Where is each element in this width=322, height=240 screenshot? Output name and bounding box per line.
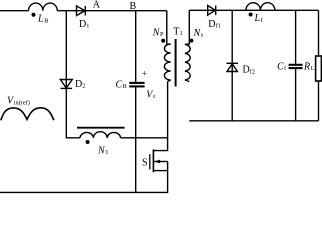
wire Cf bottom <box>295 69 297 121</box>
polarity dot N1 <box>86 140 90 144</box>
svg-text:in(ref): in(ref) <box>14 100 30 107</box>
svg-text:B: B <box>130 1 137 12</box>
label T1 <box>173 27 182 38</box>
svg-text:P: P <box>160 31 164 38</box>
label Vin(ref) <box>7 96 30 107</box>
label CB <box>116 79 127 90</box>
diode Df1 <box>208 6 216 16</box>
svg-text:S: S <box>142 158 148 169</box>
transformer T1 primary winding NP <box>164 11 170 82</box>
wire right edge to RL <box>318 10 320 56</box>
inductor N1 <box>80 132 121 138</box>
label Ns <box>193 28 204 39</box>
svg-text:D: D <box>208 19 215 30</box>
svg-text:D: D <box>79 19 86 30</box>
polarity dot Ns <box>189 39 193 43</box>
transformer core <box>175 39 177 87</box>
label Cf <box>277 61 287 72</box>
source Vin(ref) waveform <box>1 108 54 121</box>
svg-text:C: C <box>277 61 284 72</box>
svg-text:D: D <box>243 65 250 76</box>
svg-text:L: L <box>254 13 261 24</box>
wire node B down to CB <box>135 11 137 82</box>
svg-text:C: C <box>116 79 123 90</box>
svg-text:1: 1 <box>180 30 183 37</box>
svg-text:s: s <box>201 32 204 39</box>
svg-text:R: R <box>303 61 310 72</box>
wire secondary bottom rail <box>189 120 318 122</box>
svg-text:T: T <box>173 27 179 38</box>
polarity dot LB <box>32 13 36 17</box>
svg-text:B: B <box>44 18 48 25</box>
svg-text:D: D <box>75 79 82 90</box>
label N1 <box>97 145 108 156</box>
wire primary bottom to mosfet drain <box>154 82 168 151</box>
svg-text:f: f <box>284 65 287 72</box>
wire CB bottom to ground rail <box>135 88 137 193</box>
inductor LB <box>29 3 58 11</box>
svg-text:B: B <box>123 83 127 90</box>
resistor RL <box>316 56 322 81</box>
svg-text:1: 1 <box>105 149 108 156</box>
label D1 <box>79 19 89 30</box>
label LB <box>37 14 48 25</box>
label Lf <box>254 13 264 24</box>
diode D2 <box>60 80 72 89</box>
wire top-left input <box>0 10 29 12</box>
wire bottom rail primary side <box>0 191 168 193</box>
wire node A branch down to D2 and N1 <box>66 11 80 138</box>
label NP <box>152 27 164 38</box>
core bar of N1 <box>77 127 125 129</box>
svg-text:+: + <box>142 69 147 79</box>
svg-text:f: f <box>261 17 264 24</box>
capacitor Cf <box>289 65 303 68</box>
diode Df2 <box>227 63 239 71</box>
diode D1 <box>77 6 86 16</box>
polarity dot NP <box>161 39 165 43</box>
label Df1 <box>208 19 221 30</box>
svg-text:2: 2 <box>82 83 85 90</box>
svg-text:f1: f1 <box>216 23 221 30</box>
wire Df2 branch <box>231 10 233 121</box>
label RL <box>303 61 315 72</box>
svg-text:L: L <box>311 65 315 72</box>
wire RL bottom <box>318 81 320 121</box>
wire N1 to drain column <box>121 137 168 139</box>
wire secondary top rail <box>189 9 318 11</box>
svg-text:f2: f2 <box>250 68 255 75</box>
label Df2 <box>243 65 256 76</box>
svg-text:L: L <box>37 14 44 25</box>
wire Cf branch <box>295 10 297 64</box>
inductor Lf <box>246 3 275 11</box>
label Vc <box>146 89 156 100</box>
mosfet S <box>150 149 168 192</box>
svg-text:c: c <box>153 93 156 100</box>
svg-text:A: A <box>93 0 101 11</box>
wire LB to transformer (node A, node B) <box>57 10 167 12</box>
polarity dot Lf <box>249 13 253 17</box>
label D2 <box>75 79 85 90</box>
svg-text:1: 1 <box>86 23 89 30</box>
capacitor CB <box>129 83 144 87</box>
transformer secondary winding Ns <box>185 10 190 81</box>
